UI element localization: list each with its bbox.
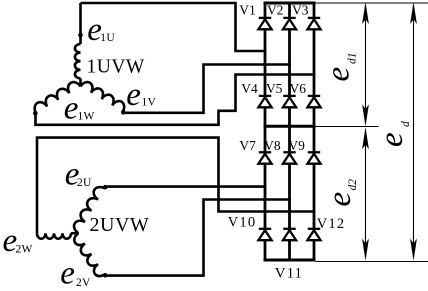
svg-text:e: e bbox=[126, 77, 141, 113]
wire phase 1W: staircase from coil end to bridge leg 3 bbox=[36, 75, 316, 125]
diode V8 bbox=[283, 152, 296, 163]
diode V12 bbox=[307, 229, 320, 240]
diode V9 bbox=[307, 152, 320, 163]
svg-text:1U: 1U bbox=[100, 32, 115, 44]
diode V3 bbox=[307, 18, 320, 29]
polarity dot e2U bbox=[103, 185, 108, 190]
svg-text:V3: V3 bbox=[292, 3, 309, 18]
arrowhead ed up bbox=[410, 2, 417, 24]
svg-text:d: d bbox=[400, 121, 412, 127]
svg-text:2U: 2U bbox=[77, 177, 92, 189]
svg-text:V5: V5 bbox=[266, 81, 283, 96]
svg-text:V8: V8 bbox=[264, 138, 281, 153]
svg-text:1V: 1V bbox=[142, 97, 157, 109]
arrowhead ed down bbox=[410, 239, 417, 261]
polarity dot e1V bbox=[121, 110, 126, 115]
arrowhead ed1 up bbox=[362, 2, 369, 24]
svg-text:1UVW: 1UVW bbox=[87, 57, 145, 78]
svg-text:V6: V6 bbox=[290, 81, 307, 96]
polarity dot e1W bbox=[33, 111, 38, 116]
svg-text:V7: V7 bbox=[239, 138, 256, 153]
svg-text:V9: V9 bbox=[288, 138, 305, 153]
wire winding e1U stem bottom to star center bbox=[79, 78, 82, 86]
svg-text:2W: 2W bbox=[16, 244, 33, 256]
wire phase 2U feed to bridge leg 1 bbox=[105, 185, 266, 188]
coil e2V (diagonal from center down-right, bumps left) bbox=[74, 233, 104, 276]
coil e1U (vertical, 4 bumps left) bbox=[75, 44, 81, 78]
wire winding e1U stem top bbox=[79, 3, 82, 44]
label ed1 (rotated) bbox=[321, 53, 359, 82]
arrowhead ed2 up bbox=[362, 127, 369, 149]
bridge leg 2 (V2/V5/V8/V11 column) bbox=[288, 3, 291, 260]
diode V1 bbox=[258, 18, 271, 29]
arrowhead ed2 down bbox=[362, 239, 369, 261]
diode V6 bbox=[307, 96, 320, 107]
polarity dot e1U bbox=[78, 33, 83, 38]
bridge leg 3 (V3/V6/V9/V12 column) bbox=[313, 3, 316, 260]
wire phase 2V feed: right, up, right to bridge leg 2 bbox=[105, 200, 291, 276]
diode V2 bbox=[283, 18, 296, 29]
svg-text:V2: V2 bbox=[267, 3, 284, 18]
polarity dot e2V bbox=[103, 273, 108, 278]
diode V7 bbox=[258, 152, 271, 163]
wire e2W to center bbox=[71, 232, 79, 235]
extension line mid bbox=[316, 126, 379, 128]
mid bus between bridges bbox=[264, 125, 316, 128]
diode V5 bbox=[283, 96, 296, 107]
dimension line ed1 bbox=[365, 5, 367, 124]
svg-text:V10: V10 bbox=[228, 215, 257, 231]
bottom DC- bus bbox=[264, 259, 316, 262]
svg-text:e: e bbox=[60, 256, 75, 291]
extension line top bbox=[316, 2, 428, 4]
svg-text:e: e bbox=[64, 91, 79, 127]
svg-text:2V: 2V bbox=[76, 277, 91, 289]
coil e1W (diagonal from star center down-left, bumps up) bbox=[35, 82, 81, 113]
wire phase 1V: from coil end right, up, right to bridge leg 2 bbox=[123, 65, 291, 113]
dimension line ed bbox=[413, 5, 415, 258]
wire phase 1U feed: top bus from winding 1U down to bridge leg 1 bbox=[81, 3, 267, 51]
diode V11 bbox=[283, 229, 296, 240]
diode V4 bbox=[258, 96, 271, 107]
svg-text:V11: V11 bbox=[275, 265, 303, 281]
extension line bottom bbox=[316, 261, 428, 263]
label ed (rotated) bbox=[374, 121, 412, 147]
diode V10 bbox=[258, 229, 271, 240]
bridge leg 1 (V1/V4/V7/V10 column) bbox=[264, 3, 267, 260]
svg-text:V12: V12 bbox=[317, 216, 346, 232]
dimension line ed2 bbox=[365, 129, 367, 258]
svg-text:d1: d1 bbox=[347, 53, 359, 65]
arrowhead ed1 down bbox=[362, 104, 369, 126]
svg-text:e: e bbox=[322, 192, 358, 207]
svg-text:d2: d2 bbox=[347, 179, 359, 191]
top DC+ bus bbox=[264, 2, 316, 5]
svg-text:1W: 1W bbox=[78, 111, 95, 123]
coil e2W (horizontal, bumps down) bbox=[37, 233, 71, 239]
wire phase 2W: riser from mid-left down to winding 2W bbox=[37, 138, 315, 234]
svg-text:e: e bbox=[374, 132, 410, 147]
coil e2U (diagonal from center up-right, bumps left) bbox=[74, 187, 105, 233]
svg-text:V4: V4 bbox=[241, 81, 258, 96]
svg-text:2UVW: 2UVW bbox=[90, 214, 150, 236]
svg-text:V1: V1 bbox=[239, 3, 256, 18]
label ed2 (rotated) bbox=[322, 179, 359, 207]
svg-text:e: e bbox=[321, 67, 357, 82]
coil e1V (diagonal from star center down-right, bumps up) bbox=[81, 82, 125, 112]
